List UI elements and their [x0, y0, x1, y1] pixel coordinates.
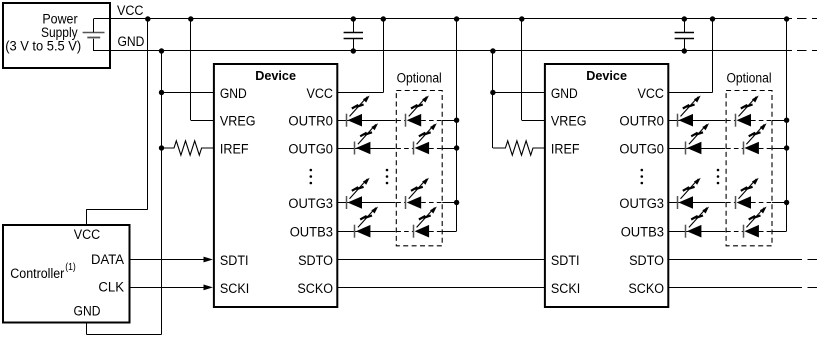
- LED OUTG0 (optional): [743, 142, 745, 155]
- wire VCC rail dashed continuation: [797, 18, 817, 20]
- controller box: [3, 225, 130, 323]
- svg-text:SCKO: SCKO: [628, 281, 664, 297]
- junction GND drop / resistor: [159, 145, 164, 150]
- svg-text:OUTB3: OUTB3: [621, 225, 664, 241]
- svg-text:(1): (1): [65, 262, 76, 273]
- svg-text:Device: Device: [586, 68, 627, 83]
- junction anode column / OUTR0: [784, 118, 789, 123]
- wire OUTG3 optional (dashed): [396, 202, 405, 204]
- LED OUTG0 (optional): [413, 142, 415, 155]
- svg-text:VCC: VCC: [638, 86, 665, 102]
- junction GND rail / capacitor: [351, 48, 356, 53]
- svg-text:SDTO: SDTO: [629, 253, 664, 269]
- wire OUTG0 to anode column: [772, 148, 787, 150]
- LED OUTB3 optional emission arrow: [417, 208, 435, 228]
- wire CLK to SCKI: [130, 287, 205, 289]
- junction VCC rail / anode column: [784, 16, 789, 21]
- wire OUTG3 row: [668, 202, 725, 204]
- svg-text:OUTG0: OUTG0: [619, 142, 664, 158]
- LED OUTR0 main emission arrow: [681, 97, 699, 117]
- arrow CLK into SCKI: [204, 285, 214, 291]
- svg-text:GND: GND: [74, 304, 101, 320]
- LED OUTG3 optional emission arrow: [739, 179, 757, 199]
- wire VCC rail: [111, 18, 792, 20]
- wire OUTR0 to anode column: [772, 120, 787, 122]
- wire OUTR0 to anode column: [442, 120, 456, 122]
- wire OUTR0 row: [668, 120, 725, 122]
- resistor R1 (IREF): [162, 141, 214, 155]
- power supply box: [3, 3, 110, 68]
- wire SCKO to SCKI (device 2): [337, 287, 544, 289]
- svg-text:GND: GND: [220, 86, 247, 102]
- wire OUTR0 optional (dashed): [396, 120, 405, 122]
- wire OUTG0 optional (dashed): [726, 148, 743, 150]
- junction GND rail / return: [159, 48, 164, 53]
- wire OUTB3 row: [668, 231, 725, 233]
- wire OUTB3 optional (dashed): [396, 231, 413, 233]
- LED OUTG0 main emission arrow: [689, 124, 707, 144]
- junction VCC rail / anode column: [454, 16, 459, 21]
- svg-text:SCKO: SCKO: [297, 281, 333, 297]
- LED OUTR0 (optional): [405, 114, 407, 127]
- LED OUTR0 main emission arrow: [350, 97, 368, 117]
- LED OUTG3 optional emission arrow: [409, 179, 427, 199]
- svg-text:SDTO: SDTO: [298, 253, 333, 269]
- svg-text:DATA: DATA: [91, 252, 124, 268]
- wire SDTO out: [668, 259, 802, 261]
- wire OUTB3 row: [337, 231, 395, 233]
- svg-text:Controller: Controller: [10, 266, 64, 282]
- svg-text:VREG: VREG: [220, 114, 256, 130]
- svg-text:SDTI: SDTI: [220, 253, 249, 269]
- LED OUTG0 optional emission arrow: [746, 124, 764, 144]
- svg-text:(3 V to 5.5 V): (3 V to 5.5 V): [5, 38, 81, 54]
- svg-text:SDTI: SDTI: [551, 253, 580, 269]
- junction anode column / OUTG3: [454, 200, 459, 205]
- wire OUTB3 to anode column: [442, 231, 456, 233]
- svg-text:OUTG3: OUTG3: [619, 196, 664, 212]
- wire VCC pin: [337, 92, 383, 94]
- junction anode column / OUTR0: [454, 118, 459, 123]
- junction VCC rail / VCC pin: [710, 16, 715, 21]
- wire OUTG0 row: [668, 148, 725, 150]
- vertical ellipsis (OUT pins): [641, 169, 644, 172]
- wire controller GND down: [86, 323, 88, 335]
- LED OUTR0 (main): [677, 114, 679, 127]
- LED OUTG3 main emission arrow: [681, 179, 699, 199]
- device U2 box: [545, 64, 668, 307]
- battery B1: [83, 32, 105, 34]
- wire SDTO to SDTI (device 2): [337, 259, 544, 261]
- wire OUTG0 to anode column: [442, 148, 456, 150]
- svg-text:Optional: Optional: [726, 70, 771, 86]
- svg-text:Optional: Optional: [397, 70, 442, 86]
- wire OUTG3 to anode column: [442, 202, 456, 204]
- LED OUTG3 (main): [677, 196, 679, 209]
- svg-text:VREG: VREG: [551, 114, 587, 130]
- capacitor C2: [675, 32, 694, 34]
- junction anode column / OUTG3: [784, 200, 789, 205]
- LED OUTG3 (main): [346, 196, 348, 209]
- wire OUTR0 row: [337, 120, 395, 122]
- junction VCC rail / controller: [145, 16, 150, 21]
- wire battery+ to VCC: [93, 19, 95, 32]
- junction anode column / OUTG0: [454, 145, 459, 150]
- svg-text:VCC: VCC: [307, 86, 334, 102]
- LED OUTG0 main emission arrow: [358, 124, 376, 144]
- junction VCC rail / VREG: [188, 16, 193, 21]
- svg-text:IREF: IREF: [551, 142, 580, 158]
- svg-text:OUTR0: OUTR0: [619, 114, 664, 130]
- wire GND pin: [162, 92, 214, 94]
- optional group dashed box: [396, 91, 442, 246]
- wire OUTB3 optional (dashed): [726, 231, 743, 233]
- LED OUTG0 (main): [354, 142, 356, 155]
- LED OUTB3 main emission arrow: [358, 208, 376, 228]
- wire OUTG3 row: [337, 202, 395, 204]
- junction GND rail / drop 2: [490, 48, 495, 53]
- wire SCKO out: [668, 287, 802, 289]
- wire GND drop (device 2): [492, 51, 494, 148]
- junction VCC rail / VREG: [519, 16, 524, 21]
- wire GND pin: [493, 92, 545, 94]
- wire GND drop / return: [161, 51, 163, 335]
- wire LED anode column (to VCC): [456, 19, 458, 231]
- wire OUTG0 row: [337, 148, 395, 150]
- wire battery- to GND: [93, 39, 95, 51]
- svg-text:GND: GND: [551, 86, 578, 102]
- vertical ellipsis (LED column): [386, 169, 389, 172]
- svg-text:IREF: IREF: [220, 142, 249, 158]
- LED OUTG3 main emission arrow: [350, 179, 368, 199]
- LED OUTB3 (main): [354, 225, 356, 238]
- optional group dashed box: [726, 91, 772, 246]
- junction anode column / OUTG0: [784, 145, 789, 150]
- arrow DATA into SDTI: [204, 257, 214, 263]
- LED OUTR0 (main): [346, 114, 348, 127]
- LED OUTR0 optional emission arrow: [739, 97, 757, 117]
- capacitor C1: [344, 32, 363, 34]
- svg-text:CLK: CLK: [98, 280, 124, 296]
- wire DATA to SDTI: [130, 259, 205, 261]
- svg-text:SCKI: SCKI: [220, 281, 249, 297]
- svg-text:OUTR0: OUTR0: [288, 114, 333, 130]
- svg-text:OUTB3: OUTB3: [290, 225, 333, 241]
- LED OUTB3 (optional): [413, 225, 415, 238]
- junction GND drop / GND pin: [159, 90, 164, 95]
- resistor R2 (IREF): [493, 141, 545, 155]
- junction GND drop / GND pin: [490, 90, 495, 95]
- wire VREG pin: [191, 120, 214, 122]
- wire OUTG0 optional (dashed): [396, 148, 413, 150]
- wire GND rail: [111, 50, 792, 52]
- wire LED anode column (to VCC): [786, 19, 788, 231]
- wire controller VCC up: [86, 209, 88, 225]
- svg-text:Device: Device: [255, 68, 296, 83]
- junction VCC rail / capacitor: [682, 16, 687, 21]
- LED OUTG3 (optional): [735, 196, 737, 209]
- svg-text:SCKI: SCKI: [551, 281, 580, 297]
- wire VCC drop to controller: [147, 19, 149, 209]
- svg-text:VCC: VCC: [74, 227, 101, 243]
- LED OUTR0 optional emission arrow: [409, 97, 427, 117]
- LED OUTG0 optional emission arrow: [417, 124, 435, 144]
- wire VREG pin: [522, 120, 545, 122]
- wire GND rail dashed continuation: [797, 50, 817, 52]
- wire VCC pin: [668, 92, 712, 94]
- LED OUTR0 (optional): [735, 114, 737, 127]
- device U1 box: [214, 64, 337, 307]
- junction GND rail / capacitor: [682, 48, 687, 53]
- wire OUTB3 to anode column: [772, 231, 787, 233]
- vertical ellipsis (LED column): [717, 169, 720, 172]
- LED OUTG3 (optional): [405, 196, 407, 209]
- svg-text:OUTG0: OUTG0: [288, 142, 333, 158]
- vertical ellipsis (OUT pins): [310, 169, 313, 172]
- LED OUTB3 (main): [685, 225, 687, 238]
- svg-text:GND: GND: [118, 34, 145, 50]
- wire VCC drop to VREG: [521, 19, 523, 120]
- junction VCC rail / VCC pin: [381, 16, 386, 21]
- junction VCC rail / capacitor: [351, 16, 356, 21]
- LED OUTB3 (optional): [743, 225, 745, 238]
- LED OUTB3 optional emission arrow: [746, 208, 764, 228]
- wire OUTG3 to anode column: [772, 202, 787, 204]
- svg-text:VCC: VCC: [117, 3, 144, 19]
- wire OUTR0 optional (dashed): [726, 120, 735, 122]
- LED OUTB3 main emission arrow: [689, 208, 707, 228]
- wire VCC drop to VREG: [190, 19, 192, 120]
- svg-text:OUTG3: OUTG3: [288, 196, 333, 212]
- LED OUTG0 (main): [685, 142, 687, 155]
- wire OUTG3 optional (dashed): [726, 202, 735, 204]
